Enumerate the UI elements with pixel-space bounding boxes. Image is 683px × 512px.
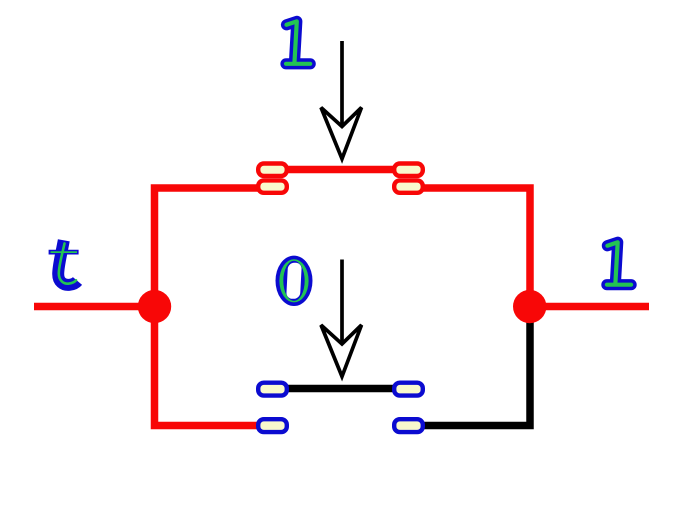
wire bottom switch bar (black, open switch)	[287, 385, 394, 393]
arrow control top shaft	[340, 41, 344, 127]
switch S1 contact lower-right (closed, red)	[394, 180, 423, 192]
switch S2 contact lower-right (open, blue)	[394, 419, 423, 432]
wire left rail lower (node down, right to bottom switch, red)	[155, 303, 259, 426]
node junction right (output)	[513, 290, 546, 323]
wire left rail upper (node up to top-left corner, right to switch)	[155, 188, 259, 310]
switch S1 contact upper-right (closed, red)	[394, 164, 423, 176]
arrow control bottom head (open dart)	[321, 325, 362, 377]
label control 0 (middle)	[276, 256, 313, 306]
switch S2 contact upper-right (open, blue)	[394, 383, 423, 396]
label output 1 (right)	[607, 242, 631, 284]
switch S1 contact lower-left (closed, red)	[258, 180, 287, 192]
wire t input (left horizontal red)	[34, 303, 155, 311]
switch S1 contact upper-left (closed, red)	[258, 164, 287, 176]
switch S2 contact upper-left (open, blue)	[258, 383, 287, 396]
label control 1 (top)	[286, 21, 310, 63]
switch S2 contact lower-left (open, blue)	[258, 419, 287, 432]
arrow control bottom shaft	[340, 260, 344, 346]
wire top rail right (switch to top-right corner, down to node)	[423, 188, 530, 310]
label t (left input)	[49, 240, 79, 285]
node junction left (t)	[138, 290, 171, 323]
wire bottom right (contact right, up to node, black)	[423, 320, 530, 426]
wire output right (node to right edge, red)	[530, 303, 649, 311]
wire top switch bar (red, closed switch)	[287, 166, 394, 174]
arrow control top head (open dart)	[321, 108, 362, 159]
